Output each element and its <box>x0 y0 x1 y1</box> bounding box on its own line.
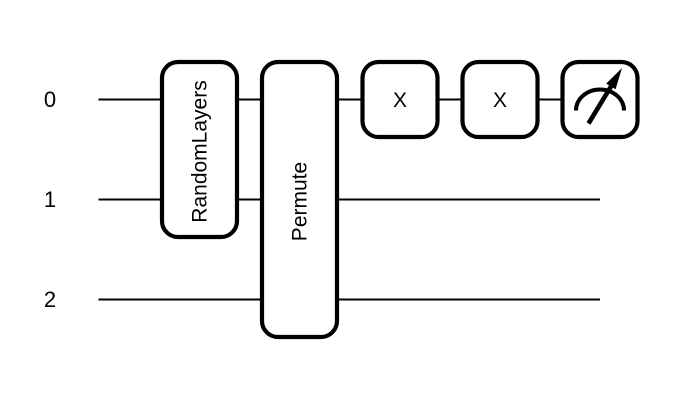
svg-text:0: 0 <box>44 87 56 112</box>
wire 0 <box>99 99 601 101</box>
measurement arc <box>576 90 624 111</box>
gate X (first, wire 0) <box>363 62 438 137</box>
wire 2 <box>99 299 601 301</box>
wire label 2 <box>44 287 56 312</box>
wire 1 <box>99 199 601 201</box>
svg-text:RandomLayers: RandomLayers <box>189 80 212 222</box>
wire label 1 <box>44 187 56 212</box>
measurement box (wire 0) <box>563 62 638 137</box>
svg-text:1: 1 <box>44 187 56 212</box>
svg-text:X: X <box>493 89 507 112</box>
gate Permute (wires 0-2) <box>262 62 337 337</box>
svg-text:X: X <box>393 89 407 112</box>
svg-text:Permute: Permute <box>289 162 312 241</box>
measurement arrow <box>589 68 623 124</box>
wire label 0 <box>44 87 56 112</box>
gate RandomLayers (wires 0-1) <box>162 62 237 237</box>
gate X (second, wire 0) <box>463 62 538 137</box>
svg-text:2: 2 <box>44 287 56 312</box>
